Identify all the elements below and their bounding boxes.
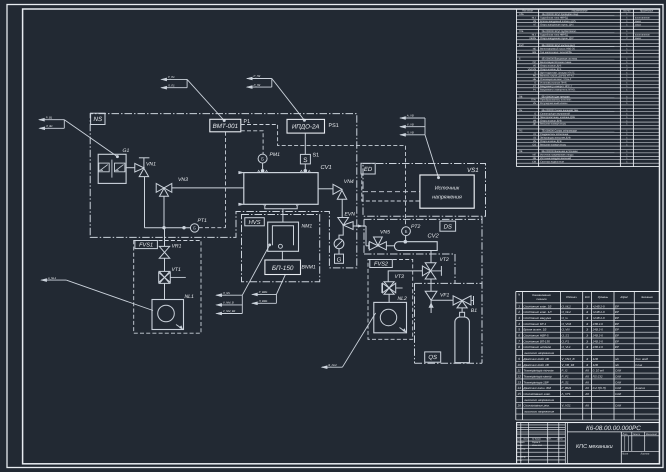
leader to NL2 (342, 313, 375, 367)
svg-text:S1: S1 (313, 153, 320, 159)
svg-text:O_VN: O_VN (562, 328, 571, 332)
svg-text:Внешние коммутаторы: Внешние коммутаторы (540, 143, 566, 146)
wire VN3 down (163, 196, 165, 228)
svg-text:Давление возд. 1В: Давление возд. 1В (522, 357, 548, 361)
svg-text:Р_G: Р_G (562, 369, 569, 373)
svg-text:АК: АК (584, 369, 589, 373)
svg-text:Р_ВМ1: Р_ВМ1 (562, 386, 572, 390)
svg-text:САИ: САИ (615, 380, 622, 384)
svg-text:VT1: VT1 (172, 267, 182, 273)
label DS (440, 221, 456, 231)
svg-text:Лист: Лист (522, 438, 529, 441)
svg-text:Дата: Дата (556, 438, 563, 441)
svg-text:Пров.: Пров. (517, 444, 523, 447)
svg-text:заказ: заказ (635, 23, 641, 26)
boundary NS (90, 114, 357, 268)
svg-text:Э: Э (586, 316, 588, 320)
wire NM1 to BP-150 (281, 251, 283, 260)
svg-text:Э: Э (586, 334, 588, 338)
svg-text:VT3: VT3 (395, 274, 405, 280)
power supply BP-150 (265, 260, 301, 275)
svg-text:ПВ: ПВ (519, 150, 523, 153)
svg-text:Лист: Лист (621, 453, 628, 456)
chamber CV1 (239, 169, 319, 207)
svg-text:Регулировочный клапан: Регулировочный клапан (540, 102, 568, 105)
svg-text:Э: Э (586, 357, 588, 361)
svg-text:VT2: VT2 (440, 257, 450, 263)
svg-text:Состояние вакуума: Состояние вакуума (523, 316, 551, 320)
svg-text:9: 9 (518, 357, 520, 361)
svg-text:Состояние клап. 1В: Состояние клап. 1В (523, 304, 551, 308)
svg-text:ЕР: ЕР (615, 304, 619, 308)
sensor PT2 (402, 227, 411, 242)
chamber CV2 (394, 240, 437, 251)
svg-text:QS: QS (428, 354, 437, 361)
flag P-P2 / L-P2 (to IPDO-2A) (247, 75, 272, 88)
svg-text:NS: NS (93, 116, 102, 123)
svg-text:ЕР: ЕР (615, 310, 619, 314)
svg-text:VN1: VN1 (146, 161, 156, 167)
svg-text:O_Р1: O_Р1 (562, 339, 570, 343)
svg-text:24В 2-0: 24В 2-0 (592, 328, 604, 332)
valve VN5 (369, 237, 395, 250)
svg-text:Р_П2: Р_П2 (254, 75, 261, 78)
leader to voltage source (425, 135, 440, 179)
svg-text:O_NL2: O_NL2 (562, 310, 572, 314)
wire CV2 to VT2 (430, 251, 432, 263)
svg-text:P1: P1 (244, 119, 251, 125)
svg-text:Состояние КР-1: Состояние КР-1 (523, 322, 546, 326)
svg-text:Р_П1: Р_П1 (168, 76, 175, 79)
svg-text:O_VN4: O_VN4 (562, 322, 572, 326)
svg-text:АК: АК (584, 392, 589, 396)
svg-text:Б: Б (193, 226, 196, 231)
svg-text:Лит.: Лит. (622, 433, 629, 436)
svg-text:FVS1: FVS1 (139, 243, 153, 249)
wire CV1 to NM1 (265, 207, 297, 223)
signal table (516, 292, 660, 420)
svg-text:САИ: САИ (615, 392, 622, 396)
svg-text:VF1: VF1 (440, 292, 450, 298)
svg-text:ЕР: ЕР (615, 334, 619, 338)
svg-text:Э: Э (586, 328, 588, 332)
node junction 1 (162, 226, 165, 229)
svg-text:Анализ: Анализ (634, 386, 645, 390)
svg-text:Состояние штоков: Состояние штоков (523, 345, 551, 349)
valve VF1 (425, 291, 453, 313)
flag group L-NS / V-NM (to NM1) (216, 292, 242, 315)
svg-text:VR1: VR1 (172, 244, 182, 250)
sensor PT1 (190, 224, 198, 232)
svg-text:Б: Б (261, 157, 264, 162)
svg-text:DS: DS (444, 223, 452, 230)
svg-text:PT1: PT1 (198, 218, 208, 224)
svg-text:САИ: САИ (615, 404, 622, 408)
svg-text:6: 6 (518, 334, 520, 338)
converter G1 (98, 154, 126, 183)
svg-text:Э: Э (586, 339, 588, 343)
source of voltage VS1 (420, 175, 474, 208)
wire VT2 to VF1 (430, 279, 432, 291)
svg-text:Масштаб: Масштаб (646, 433, 657, 436)
svg-text:ПС: ПС (519, 130, 523, 133)
svg-text:ХЛБ: ХЛБ (519, 13, 524, 16)
svg-text:Т.контр.: Т.контр. (517, 447, 526, 450)
svg-text:11: 11 (517, 369, 520, 373)
svg-text:4: 4 (518, 322, 520, 326)
boundary QS (415, 283, 483, 363)
svg-text:EVN: EVN (345, 212, 356, 218)
svg-text:К6-08.00.00.000РС: К6-08.00.00.000РС (586, 425, 641, 432)
svg-text:8: 8 (518, 345, 520, 349)
svg-text:Согласование клап.: Согласование клап. (523, 392, 551, 396)
svg-text:12В: 12В (593, 363, 598, 367)
svg-text:PM1: PM1 (270, 152, 281, 158)
svg-text:высокого напряжения: высокого напряжения (524, 398, 554, 402)
svg-text:5: 5 (518, 328, 520, 332)
svg-text:24В 2-0: 24В 2-0 (592, 334, 604, 338)
svg-text:Л_В1: Л_В1 (45, 125, 53, 128)
svg-text:Наименование: Наименование (532, 294, 551, 297)
svg-text:ДБ: ДБ (533, 123, 537, 126)
svg-text:15: 15 (517, 392, 521, 396)
parts list table (517, 9, 660, 167)
wire EVN down to gauge (339, 225, 343, 239)
node junction 2 (182, 226, 185, 229)
pump NM1 (268, 222, 299, 251)
svg-text:PS1: PS1 (329, 123, 339, 129)
svg-text:1: 1 (518, 304, 520, 308)
bottle B1 (455, 312, 470, 362)
dashed wire BMT-001 to PM1 (241, 131, 263, 154)
svg-text:Э: Э (586, 345, 588, 349)
svg-text:ВМ: ВМ (533, 51, 537, 54)
svg-text:RS-232: RS-232 (593, 374, 603, 378)
svg-text:Опора вакуумная плунж. ДУ2: Опора вакуумная плунж. ДУ2 (540, 37, 574, 40)
svg-text:+24В 2-0: +24В 2-0 (593, 316, 605, 320)
svg-text:HVS: HVS (249, 219, 261, 226)
svg-text:Температура 1ВР: Температура 1ВР (523, 380, 548, 384)
svg-text:V_VN4_В: V_VN4_В (562, 357, 575, 361)
svg-text:А_NL1: А_NL1 (47, 277, 57, 280)
dashed wire PT1 to BMT-001 (199, 132, 226, 228)
svg-text:АК: АК (584, 380, 589, 384)
label FVS1 (135, 241, 158, 249)
label QS (425, 352, 441, 362)
device BMT-001 P1 (210, 119, 241, 132)
wire VN1 down to node (145, 177, 191, 228)
svg-text:ЕР: ЕР (615, 322, 619, 326)
svg-text:G1: G1 (123, 148, 130, 154)
svg-text:п/п: п/п (615, 363, 619, 367)
svg-text:БП-150: БП-150 (272, 265, 294, 272)
svg-text:№ докум.: № докум. (532, 438, 542, 441)
svg-text:BNM1: BNM1 (302, 265, 316, 271)
svg-text:В_NL2: В_NL2 (328, 364, 337, 367)
svg-text:Э: Э (586, 304, 588, 308)
svg-text:АК: АК (584, 374, 589, 378)
svg-text:Л_П2: Л_П2 (253, 84, 261, 87)
svg-text:Состояние клап. 1Л: Состояние клап. 1Л (523, 310, 552, 314)
valve VN1 (135, 158, 150, 177)
svg-text:12В: 12В (593, 357, 598, 361)
svg-text:Тип насоса вент. типа НР2Б: Тип насоса вент. типа НР2Б (540, 51, 572, 54)
svg-text:Значение: Значение (641, 296, 653, 299)
svg-text:O_S1: O_S1 (562, 334, 570, 338)
svg-text:0..10 мА: 0..10 мА (593, 369, 604, 373)
svg-text:0-2.7(0.П): 0-2.7(0.П) (593, 386, 606, 390)
svg-text:+24В 2-0: +24В 2-0 (593, 304, 605, 308)
svg-text:АК: АК (584, 386, 589, 390)
svg-text:Состояние НВР-5: Состояние НВР-5 (523, 334, 548, 338)
switch S1 (300, 133, 310, 169)
svg-text:п/п: п/п (615, 357, 619, 361)
svg-text:Утв.: Утв. (517, 459, 522, 462)
leader to BP-150 (276, 275, 285, 295)
svg-text:V_NМ_ВХ: V_NМ_ВХ (223, 310, 236, 313)
wire VN3 to CV1 (172, 187, 244, 189)
gauge PM1 (258, 154, 267, 169)
leader to G1 (64, 120, 119, 158)
leader to NM1 (242, 244, 271, 296)
svg-text:Уровень: Уровень (598, 296, 609, 299)
svg-text:VБ: VБ (533, 102, 537, 105)
svg-text:V_NМ_В: V_NМ_В (223, 302, 234, 305)
svg-text:Хол. возд: Хол. возд (634, 357, 648, 361)
label HVS (245, 218, 264, 226)
label FVS2 (370, 260, 393, 268)
svg-text:CV2: CV2 (428, 232, 440, 239)
flag P-V1 / L-V1 (to G1) (39, 116, 64, 129)
svg-text:Э: Э (586, 363, 588, 367)
svg-text:Состояние ВП-150: Состояние ВП-150 (523, 339, 550, 343)
svg-text:Л_NS: Л_NS (222, 292, 230, 295)
svg-text:ЕР: ЕР (615, 339, 619, 343)
svg-text:Масса: Масса (633, 433, 641, 436)
svg-text:САИ: САИ (615, 386, 622, 390)
svg-text:VN4: VN4 (344, 179, 354, 185)
pump NL1 (152, 283, 184, 329)
svg-text:Код: Код (585, 296, 590, 299)
svg-text:Температура точная: Температура точная (523, 369, 553, 373)
svg-text:Адрес: Адрес (619, 296, 628, 299)
svg-text:V_VВ_1В: V_VВ_1В (562, 363, 575, 367)
svg-text:Л_П1: Л_П1 (167, 84, 175, 87)
svg-text:АК: АК (584, 404, 589, 408)
svg-text:O_NL1: O_NL1 (562, 304, 572, 308)
svg-text:2: 2 (517, 310, 520, 314)
wire EVN to VN5 (353, 225, 369, 246)
svg-text:Изм: Изм (517, 438, 521, 441)
svg-text:14: 14 (517, 386, 521, 390)
svg-text:S: S (303, 157, 307, 164)
valve VN3 (156, 184, 172, 197)
svg-text:Н.контр.: Н.контр. (517, 455, 526, 458)
svg-text:Поз.обозн: Поз.обозн (522, 10, 534, 13)
wire VT2 to VT3 (388, 271, 422, 282)
svg-text:ЕР: ЕР (615, 328, 619, 332)
svg-text:VS1: VS1 (467, 167, 479, 174)
svg-text:Опора вакуумная плунж. ДУ4: Опора вакуумная плунж. ДУ4 (540, 23, 574, 26)
svg-text:VN3: VN3 (178, 177, 188, 183)
svg-text:O_G: O_G (562, 316, 569, 320)
svg-text:САИ: САИ (615, 369, 622, 373)
flag P-P1 / L-P1 (to BMT-001) (161, 76, 187, 89)
svg-text:ЕР: ЕР (615, 345, 619, 349)
svg-text:напряжения: напряжения (432, 195, 462, 201)
flag A-VB / V-VB / L-VB (to VS1 source) (400, 115, 425, 137)
valve VT2 (422, 263, 441, 279)
svg-text:Согласование реж.: Согласование реж. (523, 404, 550, 408)
flag B-NL2 (322, 364, 343, 369)
gauge G below EVN (334, 239, 344, 254)
box G (335, 254, 344, 264)
svg-text:ED: ED (364, 166, 373, 173)
dashed wire ED to source (362, 174, 420, 201)
svg-text:24В 2-0: 24В 2-0 (592, 322, 604, 326)
svg-text:10: 10 (517, 363, 521, 367)
svg-text:Система жидкостная: Система жидкостная (540, 160, 564, 163)
title block (517, 423, 660, 464)
svg-text:24В 2-0: 24В 2-0 (592, 345, 604, 349)
svg-text:16: 16 (517, 404, 521, 408)
flag A-NL1 (41, 277, 66, 282)
svg-text:Листов: Листов (640, 453, 650, 456)
svg-text:заказ: заказ (635, 37, 641, 40)
svg-text:ИПДО-2А: ИПДО-2А (292, 124, 320, 131)
svg-text:G: G (337, 257, 342, 264)
svg-text:Э: Э (586, 322, 588, 326)
svg-text:B1: B1 (471, 308, 477, 314)
valve VR1 (159, 228, 169, 259)
svg-text:высокого напряжения: высокого напряжения (524, 351, 554, 355)
device IPDO-2A PS1 (287, 119, 325, 133)
boundary VS1 (363, 164, 486, 217)
svg-text:NL1: NL1 (185, 294, 195, 300)
svg-text:Э: Э (586, 310, 588, 314)
svg-text:Источник: Источник (435, 185, 460, 191)
svg-text:А_VТ1: А_VТ1 (561, 392, 571, 396)
svg-text:VN5: VN5 (380, 229, 390, 235)
svg-text:+24В 2-0: +24В 2-0 (593, 310, 605, 314)
flag group P-BM1 / L-BM1 (to BP-150) (252, 291, 276, 305)
svg-text:CV1: CV1 (321, 164, 332, 171)
svg-text:А_VВ: А_VВ (406, 115, 414, 118)
svg-text:Серов А.: Серов А. (532, 441, 541, 444)
svg-text:ЕР: ЕР (615, 316, 619, 320)
svg-text:Слив: Слив (635, 363, 642, 367)
svg-text:Р_ВМ1: Р_ВМ1 (259, 291, 268, 294)
valve VT3 (382, 282, 403, 295)
svg-text:Л_ВМ1: Л_ВМ1 (258, 300, 268, 303)
svg-text:ПВ: ПВ (519, 95, 523, 98)
svg-text:САИ: САИ (615, 374, 622, 378)
dashed wire BMT-001 to PT2 line (241, 125, 406, 227)
svg-text:NL2: NL2 (398, 296, 408, 302)
svg-text:высокого напряжения: высокого напряжения (524, 410, 554, 414)
svg-text:Р_S1: Р_S1 (562, 380, 570, 384)
label NS (91, 113, 105, 124)
svg-text:ВМТ-001: ВМТ-001 (213, 123, 238, 130)
svg-text:Л_VВ: Л_VВ (406, 132, 414, 135)
svg-text:Давление возд. 1В: Давление возд. 1В (522, 363, 548, 367)
boundary HVS (242, 215, 320, 282)
wire CV1 to VN4 (318, 188, 333, 190)
svg-text:O_VL1: O_VL1 (562, 345, 572, 349)
boundary DS (364, 216, 482, 363)
dashed wire VS1 to source (363, 191, 420, 193)
leader to IPDO-2A (272, 79, 306, 122)
svg-text:БVС: БVС (519, 44, 524, 47)
svg-text:Юдин В.И.: Юдин В.И. (532, 444, 543, 447)
svg-text:3: 3 (518, 316, 520, 320)
wire G1 to VN1 (126, 167, 135, 169)
svg-text:Температура камер: Температура камер (523, 374, 551, 378)
svg-text:Р_Р1: Р_Р1 (562, 374, 570, 378)
boundary FVS2 (368, 260, 413, 340)
pump NL2 (374, 294, 407, 333)
svg-text:сигнала: сигнала (536, 298, 547, 301)
svg-text:7: 7 (518, 339, 520, 343)
svg-text:Внешние коммутаторы: Внешние коммутаторы (540, 123, 566, 126)
boundary FVS1 (134, 241, 201, 334)
svg-text:КПС механики: КПС механики (576, 444, 613, 450)
svg-text:Разраб.: Разраб. (517, 441, 525, 444)
svg-text:ГЛБ: ГЛБ (519, 30, 524, 33)
svg-text:Б: Б (405, 229, 408, 234)
svg-text:Подп.: Подп. (546, 438, 552, 441)
leader to BMT-001 (187, 79, 226, 122)
svg-text:Давление внеш. ВМ: Давление внеш. ВМ (522, 386, 551, 390)
valve VN4 (333, 184, 347, 217)
svg-text:NM1: NM1 (302, 223, 313, 229)
valve VT1 (159, 258, 186, 283)
svg-text:VБ/РБ: VБ/РБ (529, 37, 536, 40)
svg-text:СО: СО (533, 143, 537, 146)
svg-text:Р_В1: Р_В1 (46, 116, 53, 119)
svg-text:24В 2-0: 24В 2-0 (592, 339, 604, 343)
svg-text:13: 13 (517, 380, 521, 384)
svg-text:Время включ. 1В: Время включ. 1В (523, 328, 546, 332)
valve on B1 (453, 296, 473, 313)
svg-text:V_VS1: V_VS1 (562, 404, 572, 408)
valve EVN (338, 218, 353, 230)
svg-text:Примечание: Примечание (640, 10, 654, 13)
svg-text:FVS2: FVS2 (374, 262, 389, 268)
svg-text:V_VВ: V_VВ (407, 123, 414, 126)
svg-text:Обознач.: Обознач. (566, 296, 577, 299)
svg-text:ХБ: ХБ (519, 109, 523, 112)
svg-text:Вакуумметр измеритель ВП-Б1: Вакуумметр измеритель ВП-Б1 (540, 88, 576, 91)
svg-text:PT2: PT2 (411, 224, 421, 230)
svg-text:12: 12 (517, 374, 521, 378)
label ED (361, 163, 375, 174)
leader to NL1 (66, 280, 153, 310)
